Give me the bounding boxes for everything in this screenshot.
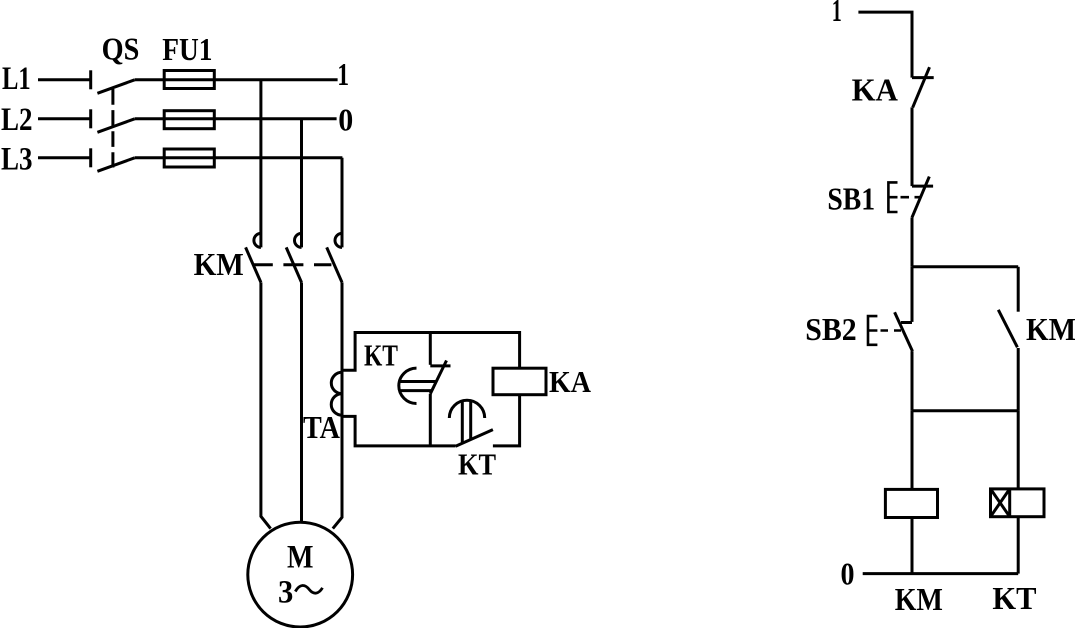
svg-text:KM: KM (1026, 311, 1075, 347)
KT NC delayed contact blade (430, 361, 446, 394)
wire L2 to node 0 (135, 117, 337, 120)
wire L1 to node 1 (135, 78, 338, 81)
KT box outline (342, 333, 520, 446)
svg-text:KT: KT (458, 447, 496, 482)
svg-text:QS: QS (102, 31, 140, 67)
wire to KM coil (911, 411, 914, 490)
svg-text:KA: KA (549, 364, 592, 399)
wire KT coil to bottom (1017, 517, 1020, 574)
wire KM coil to bottom (911, 518, 914, 574)
svg-text:L2: L2 (1, 102, 33, 138)
switch QS pole 2 terminal (89, 109, 92, 128)
svg-text:L1: L1 (2, 61, 31, 97)
button SB2 dashed link (881, 329, 902, 332)
switch QS pole 1 blade (97, 80, 134, 94)
svg-text:FU1: FU1 (162, 31, 212, 67)
fuse FU1 pole 1 (164, 71, 214, 89)
wire branch top (912, 265, 1018, 268)
contactor KM main contact 1 (246, 233, 261, 282)
switch QS pole 3 blade (97, 158, 134, 172)
coil KM (885, 489, 937, 517)
wire branch bottom junction (912, 409, 1018, 412)
wire L3 input (38, 156, 91, 159)
wire phase A to motor (261, 282, 271, 528)
contact KA blade (913, 67, 930, 107)
KT delay symbol (arc) (399, 368, 417, 403)
contactor KM linkage (dashed) (253, 263, 332, 266)
wire branch to SB2 (911, 267, 914, 322)
button SB2 tick (901, 321, 912, 324)
wire phase B drop (300, 119, 303, 248)
button SB2 actuator (868, 316, 877, 345)
wire top right (858, 12, 912, 78)
KT NO delay symbol lines (462, 401, 470, 443)
wire to KT coil (1017, 411, 1020, 489)
KT NC delayed contact tick (430, 364, 450, 367)
wire phase C drop (341, 158, 344, 248)
svg-text:SB2: SB2 (805, 311, 856, 347)
current transformer TA (331, 372, 342, 415)
switch QS pole 2 blade (97, 119, 134, 133)
svg-text:L3: L3 (1, 142, 33, 178)
motor M circle (248, 522, 353, 627)
KT NO delay symbol arc (449, 400, 484, 418)
coil KT (991, 489, 1045, 517)
wire KM aux top (1017, 267, 1020, 312)
switch QS pole 3 terminal (89, 148, 92, 167)
button SB1 blade (912, 177, 929, 218)
contactor KM main contact 3 (327, 233, 342, 282)
wire KM aux down (1017, 348, 1020, 411)
wire SB1 to branch (911, 217, 914, 266)
svg-text:M: M (287, 540, 314, 576)
switch QS pole 1 terminal (89, 70, 92, 89)
svg-text:TA: TA (303, 409, 340, 445)
svg-text:KM: KM (895, 581, 943, 617)
wire KA to SB1 (911, 107, 914, 186)
contact KM aux blade (998, 310, 1017, 348)
wire L3 (135, 156, 343, 159)
svg-text:SB1: SB1 (827, 181, 875, 217)
button SB1 actuator (888, 182, 897, 212)
svg-text:1: 1 (337, 56, 349, 92)
fuse FU1 pole 3 (164, 149, 214, 167)
svg-text:KT: KT (364, 338, 398, 373)
KT NO delayed contact blade (456, 430, 493, 447)
KT delay symbol lines (399, 382, 436, 391)
relay coil KA (493, 368, 546, 395)
wire SB2 down (911, 351, 914, 411)
wire box middle top (429, 333, 432, 365)
motor tilde (295, 585, 322, 593)
svg-text:KA: KA (852, 72, 898, 108)
svg-text:0: 0 (338, 102, 353, 138)
button SB1 dashed link (901, 196, 921, 199)
button SB1 tick (912, 185, 933, 188)
switch QS linkage (dashed) (111, 89, 114, 168)
wire L1 input (38, 78, 91, 81)
contact KA tick (912, 76, 934, 79)
svg-text:KM: KM (194, 246, 244, 282)
wire box middle bottom (429, 394, 432, 446)
wire phase C to motor (333, 282, 342, 528)
svg-text:1: 1 (832, 0, 842, 28)
svg-text:KT: KT (992, 580, 1036, 616)
wire L2 input (38, 117, 91, 120)
wire bottom rail (863, 572, 1019, 575)
fuse FU1 pole 2 (164, 111, 214, 129)
wire phase B to motor (300, 282, 303, 523)
button SB2 blade (895, 312, 913, 351)
contactor KM main contact 2 (286, 233, 301, 282)
svg-text:3: 3 (278, 575, 293, 611)
wire phase A drop (259, 80, 262, 248)
svg-text:0: 0 (841, 556, 855, 592)
